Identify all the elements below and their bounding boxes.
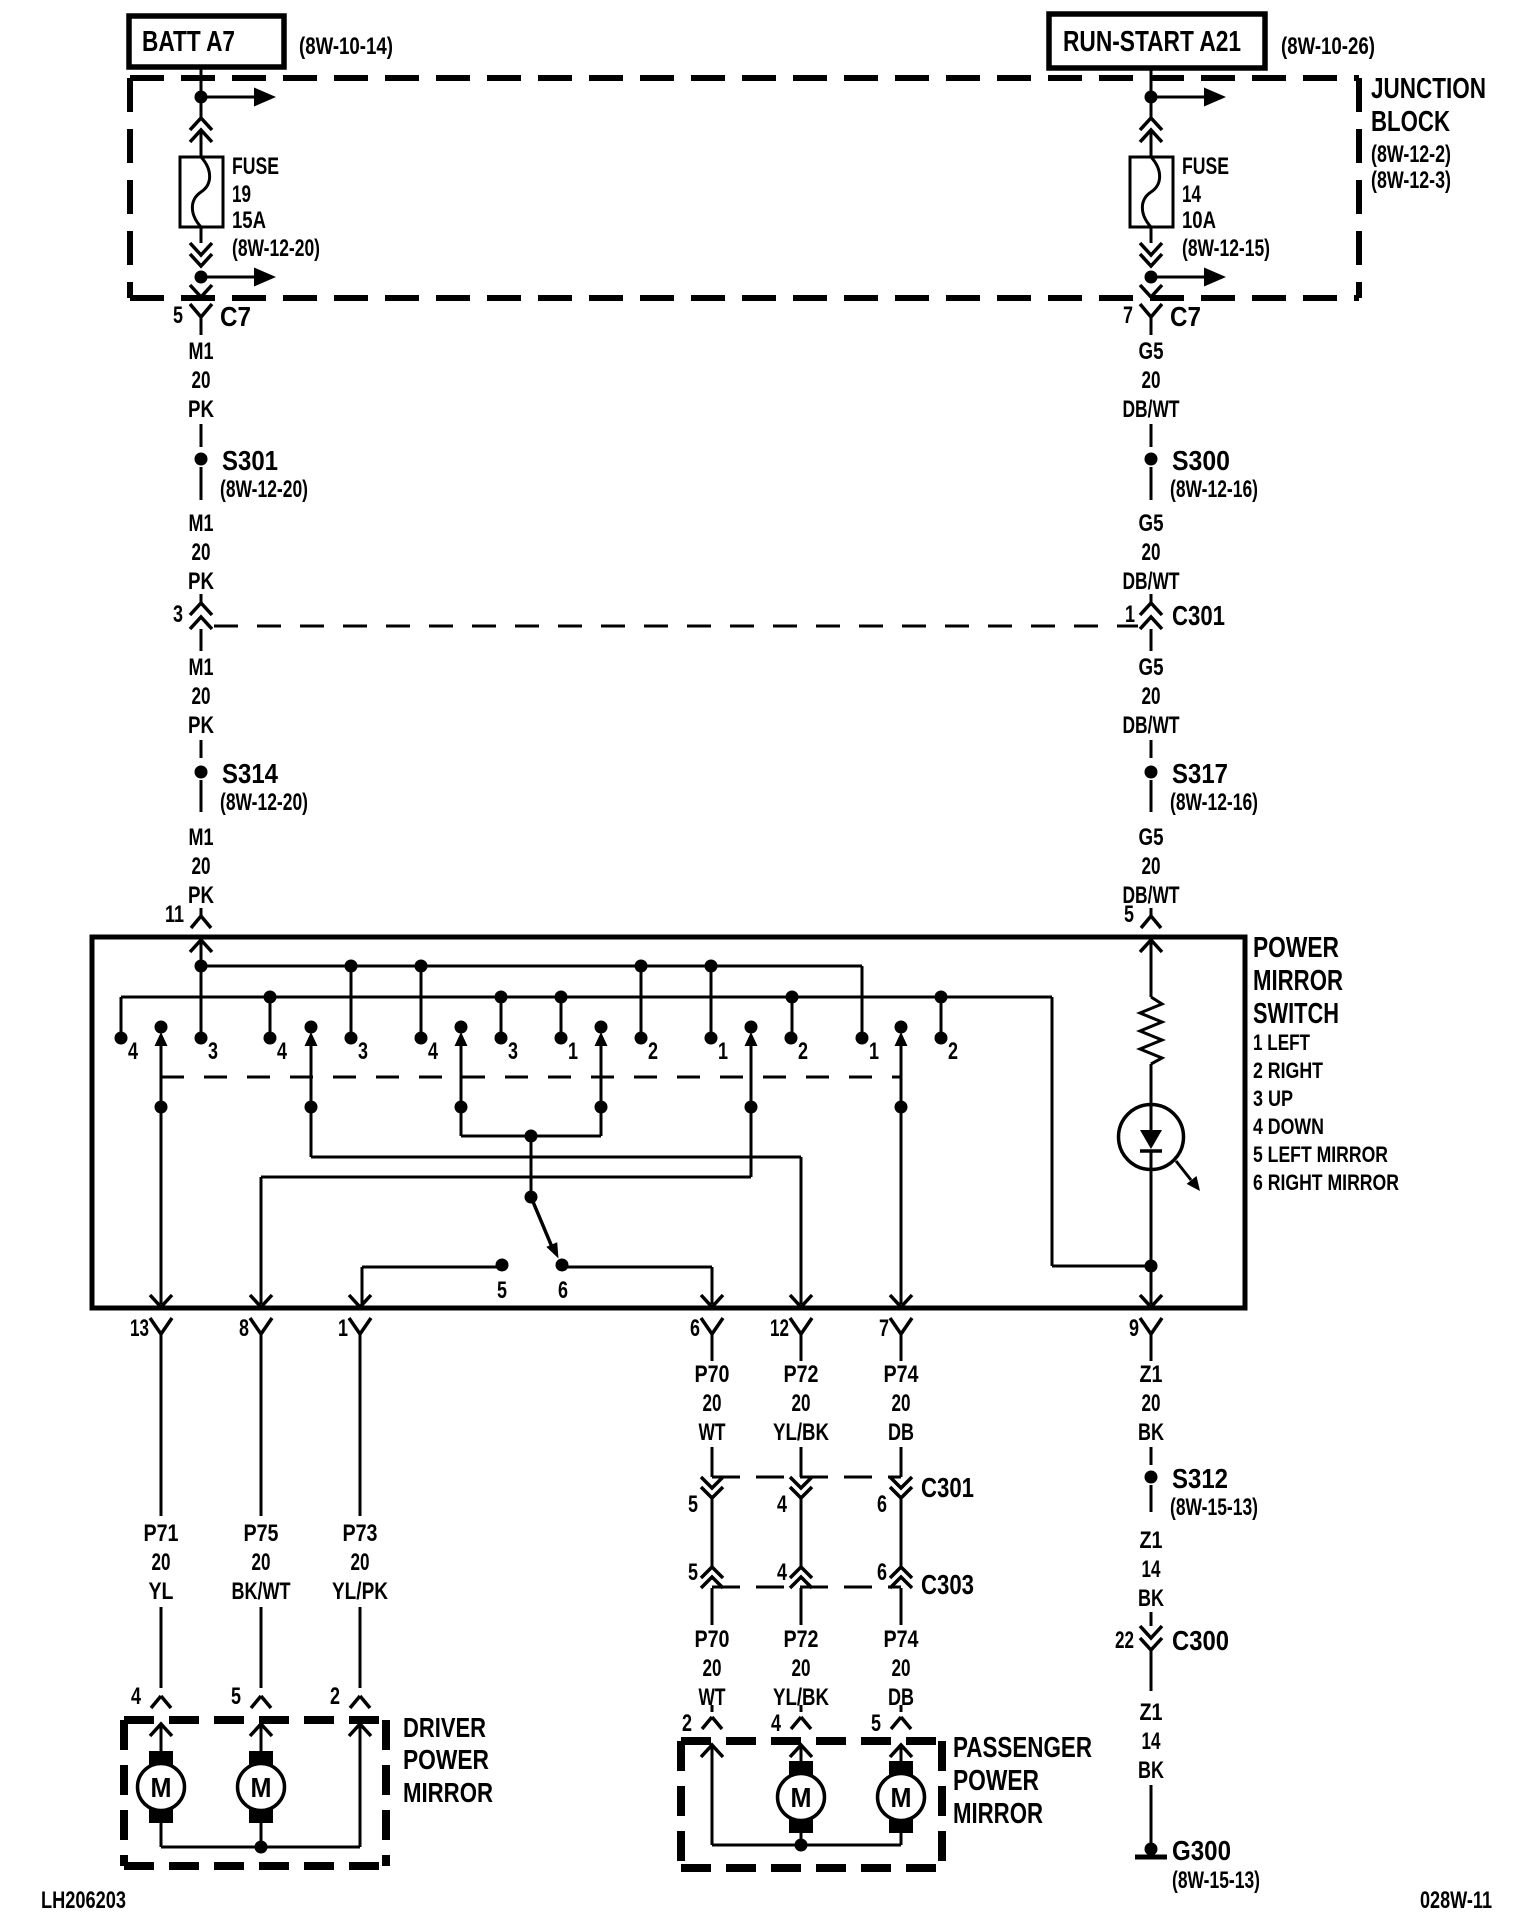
svg-text:PASSENGER: PASSENGER bbox=[953, 1732, 1092, 1764]
svg-text:3: 3 bbox=[358, 1038, 368, 1065]
wire pin 6 down bbox=[711, 1352, 714, 1361]
svg-text:JUNCTION: JUNCTION bbox=[1371, 73, 1486, 105]
svg-text:6: 6 bbox=[558, 1277, 568, 1304]
wiper contact A (pin 13) bbox=[155, 1021, 168, 1034]
svg-text:C300: C300 bbox=[1172, 1625, 1229, 1656]
svg-text:3: 3 bbox=[173, 601, 183, 628]
junction block dashed border bbox=[130, 75, 1359, 81]
svg-text:S300: S300 bbox=[1172, 445, 1230, 476]
connector C303 pin 6 bbox=[890, 1567, 912, 1578]
svg-text:2: 2 bbox=[648, 1038, 658, 1065]
svg-text:S317: S317 bbox=[1172, 758, 1228, 789]
svg-text:DB: DB bbox=[888, 1419, 914, 1446]
wire bbox=[1150, 629, 1153, 651]
pin 5 entry chevron bbox=[1140, 940, 1162, 952]
bus 1 stub to contact 4b bbox=[420, 966, 423, 1038]
svg-text:MIRROR: MIRROR bbox=[403, 1777, 493, 1808]
node splice with arrow (left bottom) bbox=[195, 271, 208, 284]
svg-text:G5: G5 bbox=[1139, 510, 1164, 537]
svg-text:C303: C303 bbox=[921, 1569, 974, 1600]
svg-text:20: 20 bbox=[792, 1655, 811, 1682]
svg-text:FUSE: FUSE bbox=[1182, 153, 1229, 180]
wire bbox=[711, 1498, 714, 1567]
svg-text:POWER: POWER bbox=[953, 1765, 1039, 1797]
node driver common bbox=[255, 1841, 268, 1854]
svg-text:2: 2 bbox=[682, 1710, 692, 1737]
svg-text:20: 20 bbox=[892, 1390, 911, 1417]
passenger pin 4 entry chevron bbox=[790, 1745, 812, 1757]
wire bbox=[900, 1447, 903, 1477]
svg-text:(8W-12-15): (8W-12-15) bbox=[1182, 235, 1270, 262]
svg-text:8: 8 bbox=[239, 1315, 249, 1342]
bus 2 stub to contact 4a2 bbox=[269, 997, 272, 1038]
wire pin 1 to driver mirror bbox=[359, 1352, 362, 1516]
mechanical gang dashed line bbox=[161, 1076, 901, 1079]
bus 1 stub to contact 1b bbox=[710, 966, 713, 1038]
svg-text:BK: BK bbox=[1138, 1757, 1164, 1784]
svg-text:5: 5 bbox=[688, 1491, 698, 1518]
bus 2 stub to contact 2c bbox=[940, 997, 943, 1038]
svg-text:(8W-12-20): (8W-12-20) bbox=[220, 476, 308, 503]
svg-text:20: 20 bbox=[1142, 539, 1161, 566]
svg-text:5: 5 bbox=[231, 1683, 241, 1710]
svg-text:S301: S301 bbox=[222, 445, 278, 476]
svg-text:(8W-12-20): (8W-12-20) bbox=[220, 789, 308, 816]
svg-text:15A: 15A bbox=[232, 207, 266, 234]
connector chevrons below fuse 19 bbox=[190, 243, 212, 255]
svg-text:9: 9 bbox=[1129, 1315, 1139, 1342]
wiper contact D (common right) bbox=[595, 1021, 608, 1034]
svg-text:DB/WT: DB/WT bbox=[1123, 396, 1180, 423]
stationary contact 2 at x=941 bbox=[935, 1032, 948, 1045]
wire bbox=[1150, 467, 1153, 500]
bus 1 stub to contact 2a bbox=[640, 966, 643, 1038]
svg-text:M1: M1 bbox=[189, 654, 214, 681]
switch pin 13 connector bbox=[150, 1295, 172, 1307]
svg-text:WT: WT bbox=[699, 1419, 726, 1446]
wire bbox=[260, 1607, 263, 1688]
svg-text:SWITCH: SWITCH bbox=[1253, 998, 1339, 1030]
wire bbox=[200, 97, 203, 118]
node splice with arrow (left top) bbox=[195, 91, 208, 104]
bus 2 junction dots bbox=[264, 991, 277, 1004]
splice S301 bbox=[195, 453, 208, 466]
wiper contact F (pin 7) bbox=[895, 1021, 908, 1034]
fuse 14 10A bbox=[1130, 157, 1173, 227]
stationary contact 2 at x=641 bbox=[635, 1032, 648, 1045]
connector C301 dashed line bbox=[214, 625, 1138, 628]
wire contact B to pin 12 bbox=[311, 1156, 801, 1159]
svg-text:P74: P74 bbox=[884, 1361, 920, 1388]
wire bbox=[1150, 1612, 1153, 1626]
node splice with arrow (right top) bbox=[1145, 91, 1158, 104]
svg-text:3: 3 bbox=[208, 1038, 218, 1065]
svg-text:PK: PK bbox=[188, 882, 215, 909]
wire bbox=[200, 594, 203, 603]
stationary contact 4 at x=121 bbox=[115, 1032, 128, 1045]
stationary contact 4 at x=421 bbox=[415, 1032, 428, 1045]
connector C301 pin 4 bbox=[790, 1477, 812, 1488]
switch pin 7 connector bbox=[890, 1295, 912, 1307]
svg-text:3 UP: 3 UP bbox=[1253, 1086, 1293, 1111]
svg-text:14: 14 bbox=[1182, 181, 1201, 208]
svg-text:2: 2 bbox=[798, 1038, 808, 1065]
wire pin 7 down bbox=[900, 1352, 903, 1361]
svg-text:(8W-15-13): (8W-15-13) bbox=[1170, 1494, 1258, 1521]
svg-text:1 LEFT: 1 LEFT bbox=[1253, 1030, 1310, 1055]
stationary contact 2 at x=791 bbox=[785, 1032, 798, 1045]
LED light arrow bbox=[1176, 1161, 1191, 1180]
wire contact 5 to pin 1 bbox=[362, 1266, 502, 1269]
wire contact 6 to pin 6 bbox=[562, 1266, 712, 1269]
fuse 19 15A bbox=[180, 157, 223, 227]
svg-text:20: 20 bbox=[252, 1549, 271, 1576]
svg-text:1: 1 bbox=[718, 1038, 728, 1065]
svg-text:S312: S312 bbox=[1172, 1463, 1228, 1494]
svg-text:4: 4 bbox=[428, 1038, 438, 1065]
wire from RUN-START A21 to node bbox=[1150, 68, 1153, 94]
svg-text:4: 4 bbox=[131, 1683, 141, 1710]
svg-text:P71: P71 bbox=[144, 1520, 179, 1547]
svg-text:20: 20 bbox=[351, 1549, 370, 1576]
switch pin 9 connector bbox=[1140, 1295, 1162, 1307]
svg-text:PK: PK bbox=[188, 712, 215, 739]
svg-text:028W-11: 028W-11 bbox=[1420, 1887, 1492, 1914]
selector switch blade bbox=[531, 1197, 552, 1247]
wire bbox=[1150, 424, 1153, 447]
svg-text:(8W-12-16): (8W-12-16) bbox=[1170, 476, 1258, 503]
wire below fuse 14 bbox=[1150, 227, 1153, 243]
wire bbox=[800, 1498, 803, 1567]
stationary contact 3 at x=501 bbox=[495, 1032, 508, 1045]
wire from BATT A7 to node bbox=[200, 67, 203, 94]
bus 1 junction dots bbox=[195, 960, 208, 973]
svg-text:C7: C7 bbox=[1170, 301, 1201, 332]
svg-text:C301: C301 bbox=[921, 1472, 974, 1503]
svg-text:G5: G5 bbox=[1139, 338, 1164, 365]
svg-text:2: 2 bbox=[948, 1038, 958, 1065]
svg-text:20: 20 bbox=[703, 1390, 722, 1417]
svg-text:(8W-12-3): (8W-12-3) bbox=[1371, 167, 1451, 194]
svg-text:(8W-12-20): (8W-12-20) bbox=[232, 235, 320, 262]
wire bbox=[160, 1607, 163, 1688]
bus line 2 bbox=[121, 996, 1052, 999]
svg-text:6 RIGHT MIRROR: 6 RIGHT MIRROR bbox=[1253, 1170, 1399, 1195]
svg-text:6: 6 bbox=[877, 1491, 887, 1518]
connector C301 pin 6 bbox=[890, 1477, 912, 1488]
connector C7 pin 7 exit chevron bbox=[1140, 285, 1162, 297]
connector C303 pin 4 bbox=[790, 1567, 812, 1578]
svg-text:P70: P70 bbox=[695, 1361, 730, 1388]
wire contact E to pin 8 bbox=[261, 1176, 751, 1179]
wire bbox=[1150, 1447, 1153, 1465]
svg-text:13: 13 bbox=[130, 1315, 149, 1342]
wiper contact B (pin 12) bbox=[305, 1021, 318, 1034]
svg-text:M: M bbox=[891, 1782, 912, 1813]
svg-text:10A: 10A bbox=[1182, 207, 1216, 234]
svg-text:P72: P72 bbox=[784, 1626, 819, 1653]
svg-text:BK: BK bbox=[1138, 1419, 1164, 1446]
power mirror switch box bbox=[92, 937, 1245, 1308]
svg-text:MIRROR: MIRROR bbox=[953, 1798, 1043, 1830]
svg-text:2: 2 bbox=[330, 1683, 340, 1710]
motor M passenger left-right bbox=[889, 1761, 913, 1775]
svg-text:PK: PK bbox=[188, 396, 215, 423]
svg-text:M1: M1 bbox=[189, 824, 214, 851]
svg-text:Z1: Z1 bbox=[1140, 1699, 1163, 1726]
connector C7 pin 5 exit chevron bbox=[190, 285, 212, 297]
wire pin 13 to driver mirror bbox=[160, 1352, 163, 1516]
wire bbox=[900, 1705, 903, 1712]
svg-text:FUSE: FUSE bbox=[232, 153, 279, 180]
connector C301 pin 3 bbox=[190, 603, 212, 615]
svg-text:BK/WT: BK/WT bbox=[232, 1578, 291, 1605]
motor M passenger up-down bbox=[789, 1761, 813, 1775]
passenger pin 5 entry chevron bbox=[890, 1745, 912, 1757]
driver pin 4 entry chevron bbox=[150, 1724, 172, 1736]
wire bbox=[711, 1588, 714, 1625]
svg-text:RUN-START A21: RUN-START A21 bbox=[1063, 26, 1241, 58]
svg-text:20: 20 bbox=[1142, 367, 1161, 394]
driver pin 5 entry chevron bbox=[250, 1724, 272, 1736]
splice S312 bbox=[1145, 1471, 1158, 1484]
stationary contact 1 at x=561 bbox=[555, 1032, 568, 1045]
stationary contact 1 at x=862 bbox=[856, 1032, 869, 1045]
connector C7 pin 5 bbox=[190, 304, 212, 317]
wire driver motor common bbox=[161, 1846, 360, 1849]
selector switch pivot bbox=[525, 1191, 538, 1204]
svg-text:YL/PK: YL/PK bbox=[332, 1578, 389, 1605]
wiper contact E (pin 8) bbox=[745, 1021, 758, 1034]
node splice with arrow (right bottom) bbox=[1145, 271, 1158, 284]
svg-text:14: 14 bbox=[1142, 1556, 1161, 1583]
wire bbox=[1150, 1785, 1153, 1843]
splice S300 bbox=[1145, 453, 1158, 466]
node common junction bbox=[525, 1130, 538, 1143]
svg-text:20: 20 bbox=[192, 367, 211, 394]
contact 6 (right mirror) bbox=[556, 1259, 569, 1272]
motor M driver left-right bbox=[249, 1751, 273, 1765]
svg-text:M: M bbox=[151, 1772, 172, 1803]
connector C301 pin 5 bbox=[701, 1477, 723, 1488]
svg-text:M: M bbox=[251, 1772, 272, 1803]
svg-text:(8W-12-16): (8W-12-16) bbox=[1170, 789, 1258, 816]
wire pin11 to contact 3 bbox=[200, 966, 203, 1038]
wire bbox=[1150, 780, 1153, 812]
wire bbox=[200, 780, 203, 812]
svg-text:19: 19 bbox=[232, 181, 251, 208]
svg-text:20: 20 bbox=[792, 1390, 811, 1417]
wire bbox=[800, 1447, 803, 1477]
wire pin 12 down bbox=[800, 1352, 803, 1361]
bus 2 wire to LED cathode node bbox=[1051, 997, 1054, 1266]
passenger power mirror box bbox=[681, 1737, 942, 1745]
wire bbox=[900, 1498, 903, 1567]
svg-text:5: 5 bbox=[871, 1710, 881, 1737]
connector C303 dashed link bbox=[712, 1586, 901, 1589]
svg-text:4: 4 bbox=[777, 1491, 787, 1518]
switch pin 8 connector bbox=[250, 1295, 272, 1307]
svg-text:M1: M1 bbox=[189, 338, 214, 365]
wire bbox=[200, 740, 203, 758]
wire below fuse 19 bbox=[200, 227, 203, 243]
connector C303 pin 5 bbox=[701, 1567, 723, 1578]
svg-text:5: 5 bbox=[173, 302, 183, 329]
stationary contact 1 at x=711 bbox=[705, 1032, 718, 1045]
bus 2 stub to contact 2b bbox=[791, 997, 794, 1038]
svg-text:G5: G5 bbox=[1139, 654, 1164, 681]
wire bbox=[711, 1447, 714, 1477]
svg-text:6: 6 bbox=[877, 1559, 887, 1586]
svg-text:6: 6 bbox=[690, 1315, 700, 1342]
stationary contact 3 at x=351 bbox=[345, 1032, 358, 1045]
svg-text:YL: YL bbox=[149, 1578, 174, 1605]
passenger pin 2 entry chevron bbox=[701, 1745, 723, 1757]
svg-text:3: 3 bbox=[508, 1038, 518, 1065]
wire bbox=[1150, 97, 1153, 118]
svg-text:PK: PK bbox=[188, 568, 215, 595]
illumination LED bbox=[1119, 1105, 1184, 1170]
connector chevrons above fuse 14 bbox=[1140, 118, 1162, 130]
svg-text:14: 14 bbox=[1142, 1728, 1161, 1755]
wire bbox=[1150, 908, 1153, 916]
svg-text:DRIVER: DRIVER bbox=[403, 1712, 486, 1743]
svg-text:7: 7 bbox=[1123, 302, 1133, 329]
svg-text:11: 11 bbox=[165, 901, 184, 928]
svg-text:(8W-10-26): (8W-10-26) bbox=[1281, 33, 1375, 60]
svg-text:(8W-10-14): (8W-10-14) bbox=[299, 33, 393, 60]
connector C300 pin 22 bbox=[1140, 1626, 1162, 1638]
splice S317 bbox=[1145, 766, 1158, 779]
node LED to pin 9 bbox=[1145, 1260, 1158, 1273]
switch pin 6 connector bbox=[701, 1295, 723, 1307]
stationary contact 4 at x=270 bbox=[264, 1032, 277, 1045]
svg-text:P73: P73 bbox=[343, 1520, 378, 1547]
bus 2 stub to contact 3c bbox=[500, 997, 503, 1038]
svg-text:20: 20 bbox=[892, 1655, 911, 1682]
svg-text:20: 20 bbox=[1142, 683, 1161, 710]
connector C7 pin 7 bbox=[1140, 304, 1162, 317]
svg-text:G300: G300 bbox=[1172, 1835, 1231, 1866]
svg-text:22: 22 bbox=[1115, 1627, 1134, 1654]
svg-text:DB/WT: DB/WT bbox=[1123, 712, 1180, 739]
svg-text:(8W-12-2): (8W-12-2) bbox=[1371, 141, 1451, 168]
wire bbox=[1150, 594, 1153, 603]
svg-text:S314: S314 bbox=[222, 758, 278, 789]
svg-text:BK: BK bbox=[1138, 1585, 1164, 1612]
svg-text:20: 20 bbox=[1142, 853, 1161, 880]
connector chevrons above fuse 19 bbox=[190, 118, 212, 130]
contact 5 (left mirror) bbox=[496, 1259, 509, 1272]
wire bbox=[200, 908, 203, 916]
wire passenger motor common bbox=[712, 1844, 901, 1847]
svg-text:M1: M1 bbox=[189, 510, 214, 537]
wire bbox=[711, 1705, 714, 1712]
svg-text:1: 1 bbox=[338, 1315, 348, 1342]
svg-text:P75: P75 bbox=[244, 1520, 279, 1547]
svg-text:20: 20 bbox=[192, 539, 211, 566]
svg-text:4: 4 bbox=[771, 1710, 781, 1737]
bus 2 stub to contact 1a bbox=[560, 997, 563, 1038]
svg-text:P72: P72 bbox=[784, 1361, 819, 1388]
svg-text:YL/BK: YL/BK bbox=[773, 1419, 830, 1446]
wire bbox=[800, 1705, 803, 1712]
wire bbox=[200, 629, 203, 651]
svg-text:5: 5 bbox=[497, 1277, 507, 1304]
svg-text:DB/WT: DB/WT bbox=[1123, 568, 1180, 595]
wire bbox=[800, 1588, 803, 1625]
wire bbox=[359, 1607, 362, 1688]
bus line 1 (from pin 11) bbox=[201, 965, 862, 968]
svg-text:1: 1 bbox=[568, 1038, 578, 1065]
power feed box RUN-START A21 bbox=[1049, 14, 1265, 68]
motor M driver up-down bbox=[149, 1751, 173, 1765]
svg-text:20: 20 bbox=[703, 1655, 722, 1682]
svg-text:(8W-15-13): (8W-15-13) bbox=[1172, 1867, 1260, 1894]
svg-text:20: 20 bbox=[192, 853, 211, 880]
svg-text:4: 4 bbox=[777, 1559, 787, 1586]
ground G300 bbox=[1145, 1843, 1158, 1856]
wire bbox=[900, 1588, 903, 1625]
bus 1 stub to contact 3b bbox=[350, 966, 353, 1038]
wiper contact C (common left) bbox=[455, 1021, 468, 1034]
power feed box BATT A7 bbox=[129, 16, 284, 67]
svg-text:4: 4 bbox=[128, 1038, 138, 1065]
svg-text:POWER: POWER bbox=[1253, 932, 1339, 964]
stationary contact 3 at x=201 bbox=[195, 1032, 208, 1045]
svg-text:5: 5 bbox=[1124, 901, 1134, 928]
svg-text:MIRROR: MIRROR bbox=[1253, 965, 1343, 997]
connector C301 pin 1 bbox=[1140, 603, 1162, 615]
node passenger common bbox=[795, 1839, 808, 1852]
svg-text:4: 4 bbox=[277, 1038, 287, 1065]
svg-text:1: 1 bbox=[1125, 601, 1135, 628]
svg-text:C7: C7 bbox=[220, 301, 251, 332]
svg-text:LH206203: LH206203 bbox=[41, 1887, 126, 1914]
svg-text:4 DOWN: 4 DOWN bbox=[1253, 1114, 1324, 1139]
wire pin 9 down bbox=[1150, 1352, 1153, 1361]
svg-text:1: 1 bbox=[869, 1038, 879, 1065]
connector chevrons below fuse 14 bbox=[1140, 243, 1162, 255]
switch pin 12 connector bbox=[790, 1295, 812, 1307]
connector C301 dashed link bbox=[712, 1476, 901, 1479]
illumination resistor bbox=[1140, 997, 1162, 1064]
svg-text:2 RIGHT: 2 RIGHT bbox=[1253, 1058, 1323, 1083]
wire bbox=[200, 424, 203, 447]
svg-text:BLOCK: BLOCK bbox=[1371, 106, 1450, 138]
wire bbox=[1150, 1650, 1153, 1691]
svg-text:BATT A7: BATT A7 bbox=[142, 26, 235, 58]
svg-text:12: 12 bbox=[770, 1315, 789, 1342]
svg-text:G5: G5 bbox=[1139, 824, 1164, 851]
switch pin 1 connector bbox=[349, 1295, 371, 1307]
splice S314 bbox=[195, 766, 208, 779]
wire bbox=[200, 467, 203, 500]
wire bbox=[1150, 740, 1153, 758]
pin 11 entry chevron bbox=[190, 940, 212, 952]
svg-text:7: 7 bbox=[879, 1315, 889, 1342]
driver pin 2 entry chevron bbox=[349, 1724, 371, 1736]
svg-text:20: 20 bbox=[1142, 1390, 1161, 1417]
svg-text:5 LEFT MIRROR: 5 LEFT MIRROR bbox=[1253, 1142, 1388, 1167]
svg-text:P74: P74 bbox=[884, 1626, 920, 1653]
svg-text:5: 5 bbox=[688, 1559, 698, 1586]
svg-text:POWER: POWER bbox=[403, 1744, 489, 1775]
driver power mirror box bbox=[124, 1716, 386, 1724]
wire pin 8 to driver mirror bbox=[260, 1352, 263, 1516]
svg-text:Z1: Z1 bbox=[1140, 1361, 1163, 1388]
svg-text:20: 20 bbox=[192, 683, 211, 710]
